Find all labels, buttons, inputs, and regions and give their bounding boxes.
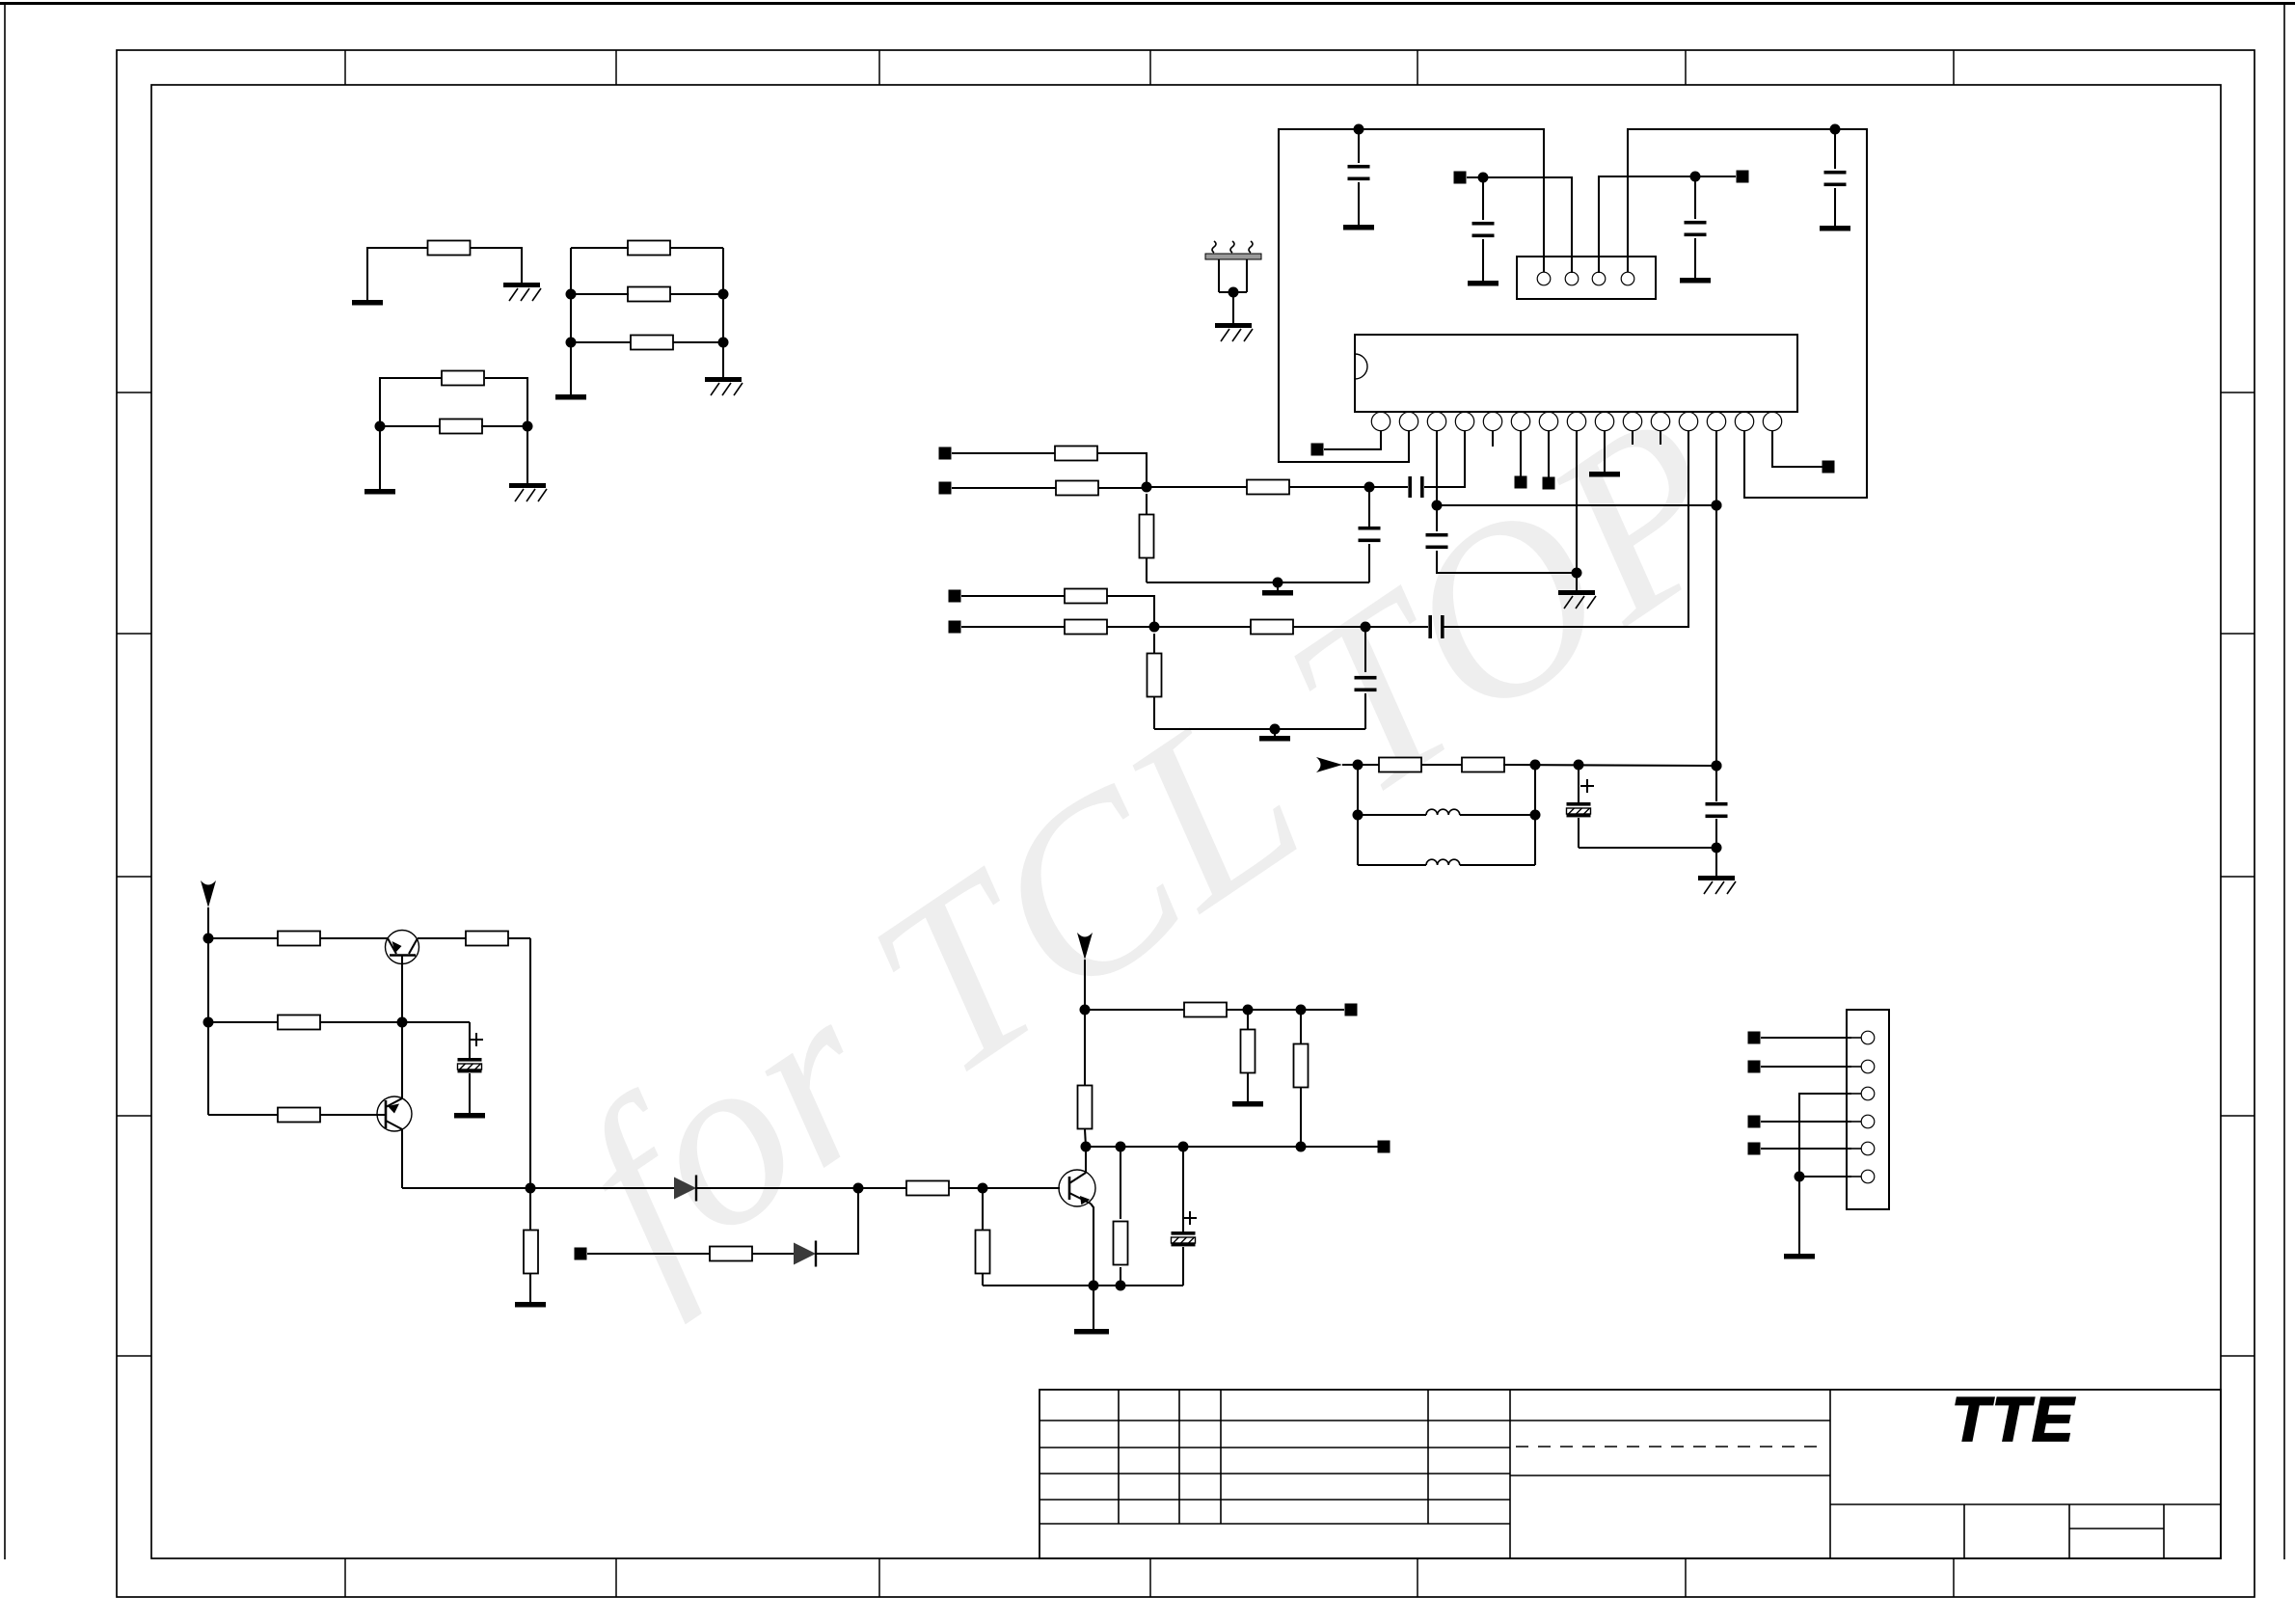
svg-text:TTE: TTE xyxy=(1952,1384,2076,1454)
